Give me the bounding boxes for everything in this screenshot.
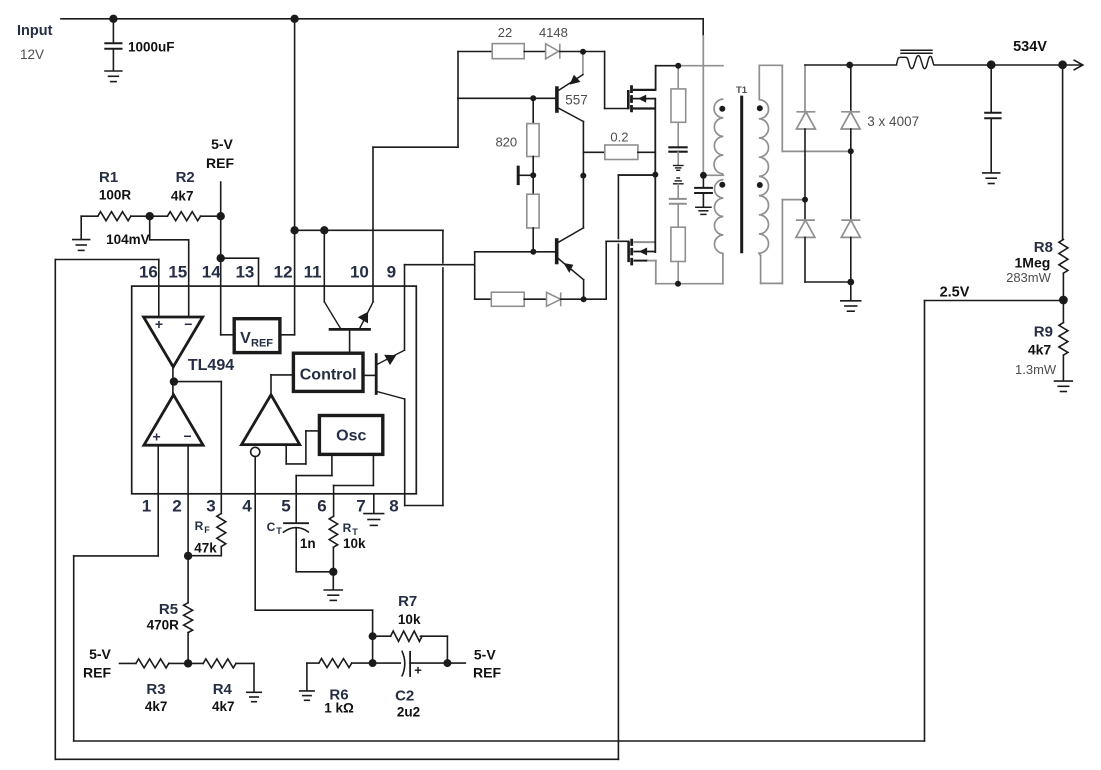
svg-text:104mV: 104mV — [106, 232, 150, 247]
wire pin10 riser — [373, 52, 458, 302]
node T1 secondary dot 2 — [757, 182, 763, 188]
svg-text:Osc: Osc — [336, 428, 366, 445]
node R6 C2 junction — [369, 659, 377, 667]
wire bridge right bottom — [850, 237, 852, 282]
wire R1 left — [81, 215, 98, 217]
node input-cap junction — [109, 15, 117, 23]
svg-text:14: 14 — [202, 263, 221, 282]
wire VREF to pin12 — [280, 334, 295, 336]
block Control — [293, 353, 363, 391]
svg-text:4148: 4148 — [539, 25, 568, 40]
svg-text:R8: R8 — [1034, 239, 1053, 256]
resistor R7 10k — [391, 631, 422, 641]
diode bridge upper-right — [841, 112, 860, 129]
capacitor center tap decoupling — [694, 175, 713, 207]
transistor 557 lower — [557, 228, 584, 299]
wire drain rail to transformer — [656, 65, 723, 67]
wire bridge left bottom — [804, 237, 806, 282]
svg-text:1Meg: 1Meg — [1015, 255, 1051, 271]
transistor Q1 internal — [324, 302, 373, 354]
svg-text:R4: R4 — [213, 681, 233, 698]
label R1 100R — [99, 169, 132, 203]
svg-text:7: 7 — [356, 497, 365, 516]
label T1 — [736, 85, 748, 96]
arrow output — [1074, 60, 1083, 70]
capacitor CT 1n — [283, 523, 309, 572]
svg-text:4k7: 4k7 — [171, 189, 194, 204]
label 534V — [1013, 39, 1047, 55]
node drive top junction — [580, 49, 586, 55]
label 1000uF — [128, 40, 175, 55]
svg-text:3 x 4007: 3 x 4007 — [867, 114, 919, 129]
svg-text:11: 11 — [304, 263, 322, 282]
node pin2 RF R5 junction — [184, 552, 192, 560]
wire pin12 VCC riser — [294, 19, 296, 335]
resistor lower driver — [491, 292, 524, 306]
wire R5 bottom — [187, 633, 189, 664]
wire R6 right — [352, 662, 373, 664]
svg-text:557: 557 — [565, 93, 588, 108]
label R2 4k7 — [171, 169, 195, 204]
capacitor C2 2u2 — [373, 651, 448, 678]
resistor R9 4k7 — [1059, 323, 1068, 356]
node VCC rail junction — [290, 226, 298, 234]
svg-text:4: 4 — [242, 497, 252, 516]
wire pin13 branch — [221, 258, 259, 286]
resistor R3 4k7 — [136, 659, 169, 668]
wire gate2 path — [606, 241, 628, 299]
svg-text:10: 10 — [350, 263, 369, 282]
svg-text:T: T — [276, 526, 282, 536]
node base 820 junction — [530, 95, 536, 101]
svg-text:2.5V: 2.5V — [940, 285, 970, 301]
label 5-V REF left — [83, 646, 112, 681]
wire RF bottom — [188, 547, 221, 556]
wire R4 left — [188, 662, 203, 664]
resistor 22 — [492, 44, 524, 59]
inductor output choke — [896, 50, 934, 68]
ground snubber lower inverted — [673, 178, 684, 184]
node bridge right junction — [848, 148, 854, 154]
wire R3 right — [169, 662, 188, 664]
svg-text:REF: REF — [206, 155, 234, 171]
svg-text:1: 1 — [142, 497, 151, 516]
wire 5-V REF vertical pin14 — [221, 182, 235, 335]
mosfet M1 upper — [628, 85, 655, 112]
svg-text:R1: R1 — [99, 169, 118, 186]
ground bridge — [840, 282, 862, 311]
wire diode to node — [561, 298, 607, 300]
wire 22 left — [458, 51, 492, 53]
inductor T1 secondary — [759, 100, 769, 254]
svg-text:13: 13 — [235, 263, 254, 282]
label RF — [194, 519, 217, 556]
svg-text:534V: 534V — [1013, 39, 1047, 55]
svg-text:5-V: 5-V — [474, 647, 496, 663]
capacitor snubber upper — [668, 122, 687, 165]
svg-text:REF: REF — [251, 338, 273, 350]
wire pin1 feedback 2.5V — [74, 301, 1064, 742]
op-amp error amp 2 — [144, 395, 203, 445]
label 104mV — [106, 232, 150, 247]
label 5-V REF right — [473, 647, 501, 681]
wire pin16 feedback to switch node — [55, 175, 655, 759]
label R9 4k7 1.3mW — [1015, 324, 1057, 378]
node R2 5VREF junction — [217, 212, 225, 220]
svg-text:5: 5 — [281, 497, 290, 516]
node bridge left junction — [802, 197, 808, 203]
resistor 820 upper — [527, 124, 539, 157]
wire 820 bottom — [532, 228, 534, 252]
wire Osc left to comparator — [286, 431, 319, 464]
svg-text:V: V — [240, 330, 251, 347]
wire pin2 riser — [187, 445, 189, 603]
wire bridge right top — [850, 65, 852, 112]
svg-text:Input: Input — [17, 23, 53, 39]
resistor R2 — [167, 212, 200, 221]
wire pin7 stub — [373, 494, 375, 513]
node drive mid junction — [580, 173, 586, 179]
capacitor output — [984, 65, 1001, 173]
node T1 secondary dot 1 — [757, 105, 763, 111]
svg-text:R: R — [343, 521, 352, 535]
wire output rail right — [934, 64, 1081, 66]
svg-text:T1: T1 — [736, 85, 748, 96]
svg-text:8: 8 — [389, 497, 398, 516]
ground R9 — [1054, 381, 1073, 391]
diode lower driver — [547, 292, 561, 306]
wire R1-R2 — [131, 215, 168, 217]
wire R9 bottom — [1062, 355, 1064, 381]
svg-text:3: 3 — [206, 497, 215, 516]
node center tap junction — [700, 172, 707, 179]
wire lower res to diode — [524, 298, 546, 300]
node switch junction — [652, 172, 658, 178]
svg-text:+: + — [155, 316, 163, 332]
svg-text:2u2: 2u2 — [397, 705, 420, 720]
svg-text:10k: 10k — [398, 612, 421, 627]
block VREF — [234, 319, 280, 353]
wire 557 base — [458, 97, 555, 99]
svg-text:4k7: 4k7 — [1028, 342, 1052, 358]
svg-text:1 kΩ: 1 kΩ — [324, 701, 354, 716]
svg-text:470R: 470R — [147, 618, 180, 633]
svg-text:12V: 12V — [20, 47, 44, 62]
svg-text:5-V: 5-V — [89, 646, 111, 662]
ground center tap cap — [695, 207, 712, 214]
net label Input 12V — [17, 23, 53, 62]
node C2 right junction — [443, 659, 451, 667]
svg-text:+: + — [414, 663, 422, 678]
label 5-V REF top — [206, 136, 234, 171]
wire R3 left stub — [120, 662, 136, 664]
svg-text:1000uF: 1000uF — [128, 40, 175, 55]
svg-text:REF: REF — [473, 665, 501, 681]
wire R6 C2 junction vertical — [372, 636, 374, 663]
IC TL494 outline — [132, 286, 417, 494]
svg-text:16: 16 — [139, 263, 158, 282]
svg-text:R9: R9 — [1034, 324, 1053, 341]
diode bridge upper-left — [796, 112, 815, 129]
wire VCC to center tap — [702, 19, 704, 176]
wire T1 secondary top lead — [759, 65, 851, 151]
wire lower res left — [475, 298, 492, 300]
wire Osc pin6 path — [334, 454, 374, 516]
svg-text:REF: REF — [83, 665, 111, 681]
label 820 — [495, 135, 517, 150]
wire resistor 0.2 right — [638, 151, 655, 153]
svg-text:5-V: 5-V — [211, 136, 233, 152]
label R8 1Meg 283mW — [1006, 239, 1053, 285]
svg-text:C2: C2 — [395, 688, 414, 705]
wire M2 drain — [654, 175, 656, 253]
transistor Q2 internal — [363, 350, 405, 399]
label C2 2u2 — [395, 688, 420, 720]
svg-text:−: − — [184, 428, 192, 444]
svg-text:R3: R3 — [146, 681, 165, 698]
node 557L base junction — [530, 249, 536, 255]
node drive low junction — [581, 296, 587, 302]
ground output cap — [982, 173, 1001, 184]
inductor T1 primary lower — [714, 180, 723, 254]
mosfet M2 lower — [629, 239, 656, 266]
capacitor snubber lower — [669, 184, 687, 227]
svg-text:10k: 10k — [343, 536, 366, 551]
svg-text:+: + — [153, 429, 161, 445]
node bridge bottom junction — [847, 279, 854, 286]
wire R8 bottom — [1062, 273, 1064, 322]
inductor T1 primary upper — [714, 99, 723, 174]
wire M1 drain — [655, 66, 657, 90]
wire pin4 deadtime — [255, 457, 372, 637]
wire output rail left — [805, 64, 896, 66]
pin numbers bottom row — [142, 497, 399, 516]
wire bridge left top — [804, 65, 806, 112]
wire Osc pin5 path — [296, 454, 332, 522]
wire VCC rail to pin8 loop — [295, 230, 443, 505]
op-amp error amp 1 — [144, 316, 203, 367]
node error amp output junction — [170, 367, 178, 395]
svg-text:−: − — [184, 316, 192, 332]
wire EA out to pin3 — [174, 382, 221, 514]
svg-text:4k7: 4k7 — [145, 699, 168, 714]
label R7 10k — [398, 593, 421, 627]
svg-text:R7: R7 — [398, 593, 417, 610]
label 22 — [498, 25, 512, 40]
wire Control left to PWM — [271, 375, 293, 395]
resistor R8 1Meg — [1059, 240, 1068, 274]
resistor RT 10k — [329, 516, 337, 547]
wire M2 source — [648, 261, 656, 284]
wire CT bottom — [296, 571, 333, 573]
wire R2 right — [201, 215, 221, 217]
label 0.2 — [610, 130, 628, 145]
resistor RF 47k — [217, 514, 226, 547]
wire switch node to feedback — [618, 174, 655, 176]
ground RT — [324, 590, 344, 600]
node output cap junction — [987, 60, 996, 69]
capacitor C-in 1000uF — [104, 19, 122, 71]
wire T1 secondary bottom lead — [759, 200, 805, 284]
node R3 R4 R5 junction — [184, 659, 192, 667]
svg-text:Control: Control — [300, 367, 357, 384]
resistor snubber upper — [671, 66, 686, 123]
wire 557 collector vertical — [582, 122, 584, 228]
label 2.5V — [940, 285, 970, 301]
wire source rail bottom — [656, 283, 723, 285]
wire pin11 riser — [323, 230, 325, 301]
node snubber top junction — [675, 63, 681, 69]
diode 4148 — [546, 44, 560, 59]
transistor 557 upper — [557, 52, 584, 122]
node VCC branch junction — [290, 15, 298, 23]
resistor 0.2 — [605, 145, 638, 160]
node 820 mid junction — [530, 172, 536, 178]
label R5 470R — [147, 601, 180, 633]
resistor 820 lower — [527, 194, 539, 228]
svg-text:1n: 1n — [300, 536, 316, 551]
wire R7 left — [373, 635, 391, 637]
label RT 10k — [343, 521, 366, 551]
wire resistor 0.2 left — [583, 151, 604, 153]
wire R4 to ground — [236, 663, 254, 692]
wire bridge right mid — [850, 129, 852, 220]
resistor R1 — [98, 212, 131, 221]
node pin14-pin13 junction — [217, 254, 225, 262]
label R4 4k7 — [212, 681, 235, 714]
wire gate1 path — [605, 52, 629, 109]
node bridge top junction — [846, 62, 853, 69]
wire 4148 to node — [560, 51, 605, 53]
svg-text:2: 2 — [172, 497, 181, 516]
svg-text:R2: R2 — [176, 169, 195, 186]
node R1-R2 junction — [146, 212, 154, 220]
wire 5VREF right stub — [447, 662, 465, 664]
node T1 primary dot 2 — [719, 182, 725, 188]
wire R6 left to ground — [307, 663, 319, 691]
wire R8 top — [1062, 65, 1064, 240]
svg-text:283mW: 283mW — [1006, 270, 1052, 285]
wire 104mV to pin15 — [150, 216, 189, 316]
node pin4 R7 junction — [369, 632, 377, 640]
svg-text:15: 15 — [168, 263, 187, 282]
svg-text:9: 9 — [387, 263, 396, 282]
resistor R6 1k — [319, 659, 352, 668]
wire 820 mid — [532, 157, 534, 195]
wire T1 primary bottom — [722, 253, 724, 283]
label 557 — [565, 93, 588, 108]
diode bridge lower-right — [841, 220, 860, 237]
ground R1 — [72, 216, 90, 250]
pin numbers top row — [139, 263, 396, 282]
node R8 top junction — [1058, 60, 1067, 69]
svg-text:TL494: TL494 — [188, 357, 234, 374]
label TL494 — [188, 357, 234, 374]
wire 820 top — [532, 98, 534, 123]
node 2.5V junction — [1059, 296, 1068, 305]
wire pin8 from Q2 collector — [404, 399, 406, 506]
svg-text:47k: 47k — [194, 541, 217, 556]
diode bridge lower-left — [796, 220, 815, 237]
resistor R4 4k7 — [203, 659, 236, 668]
wire RT bottom — [332, 547, 334, 589]
terminal bar 820 node — [518, 166, 533, 186]
wire bridge bottom rail — [805, 281, 851, 283]
wire 12V top rail — [61, 18, 703, 20]
wire pin9 from Q2 emitter — [405, 265, 475, 351]
ground input cap — [104, 71, 122, 82]
svg-text:0.2: 0.2 — [610, 130, 628, 145]
resistor snubber lower — [671, 227, 685, 284]
core T1 — [740, 96, 743, 254]
wire 557L base — [475, 252, 555, 299]
svg-text:6: 6 — [317, 497, 326, 516]
label R3 4k7 — [145, 681, 168, 714]
node snubber bottom junction — [675, 281, 681, 287]
label 3 x 4007 — [867, 114, 919, 129]
wire M1 source — [654, 99, 656, 175]
label 4148 — [539, 25, 568, 40]
label CT — [267, 520, 316, 551]
ground pin7 — [363, 514, 384, 526]
svg-text:R: R — [195, 519, 204, 533]
svg-text:R5: R5 — [159, 601, 178, 618]
block Osc — [319, 416, 382, 455]
resistor R5 — [184, 603, 193, 633]
ground snubber upper — [673, 166, 684, 171]
node CT RT junction — [329, 568, 337, 576]
op-amp PWM comparator — [242, 395, 300, 457]
svg-text:820: 820 — [495, 135, 517, 150]
node T1 primary dot 1 — [719, 106, 725, 112]
svg-text:F: F — [204, 525, 210, 535]
node pin11 junction — [320, 226, 328, 234]
wire center tap — [703, 174, 723, 176]
svg-text:1.3mW: 1.3mW — [1015, 362, 1057, 377]
svg-text:12: 12 — [274, 263, 293, 282]
svg-text:C: C — [267, 520, 276, 534]
svg-text:4k7: 4k7 — [212, 699, 235, 714]
wire 22 to 4148 — [524, 51, 545, 53]
ground R6 — [299, 691, 315, 700]
svg-text:100R: 100R — [99, 188, 132, 203]
wire bridge left mid — [804, 129, 806, 220]
ground R4 — [246, 692, 262, 701]
svg-text:22: 22 — [498, 25, 512, 40]
wire R7 right — [421, 636, 448, 663]
label R6 1k — [324, 687, 354, 716]
